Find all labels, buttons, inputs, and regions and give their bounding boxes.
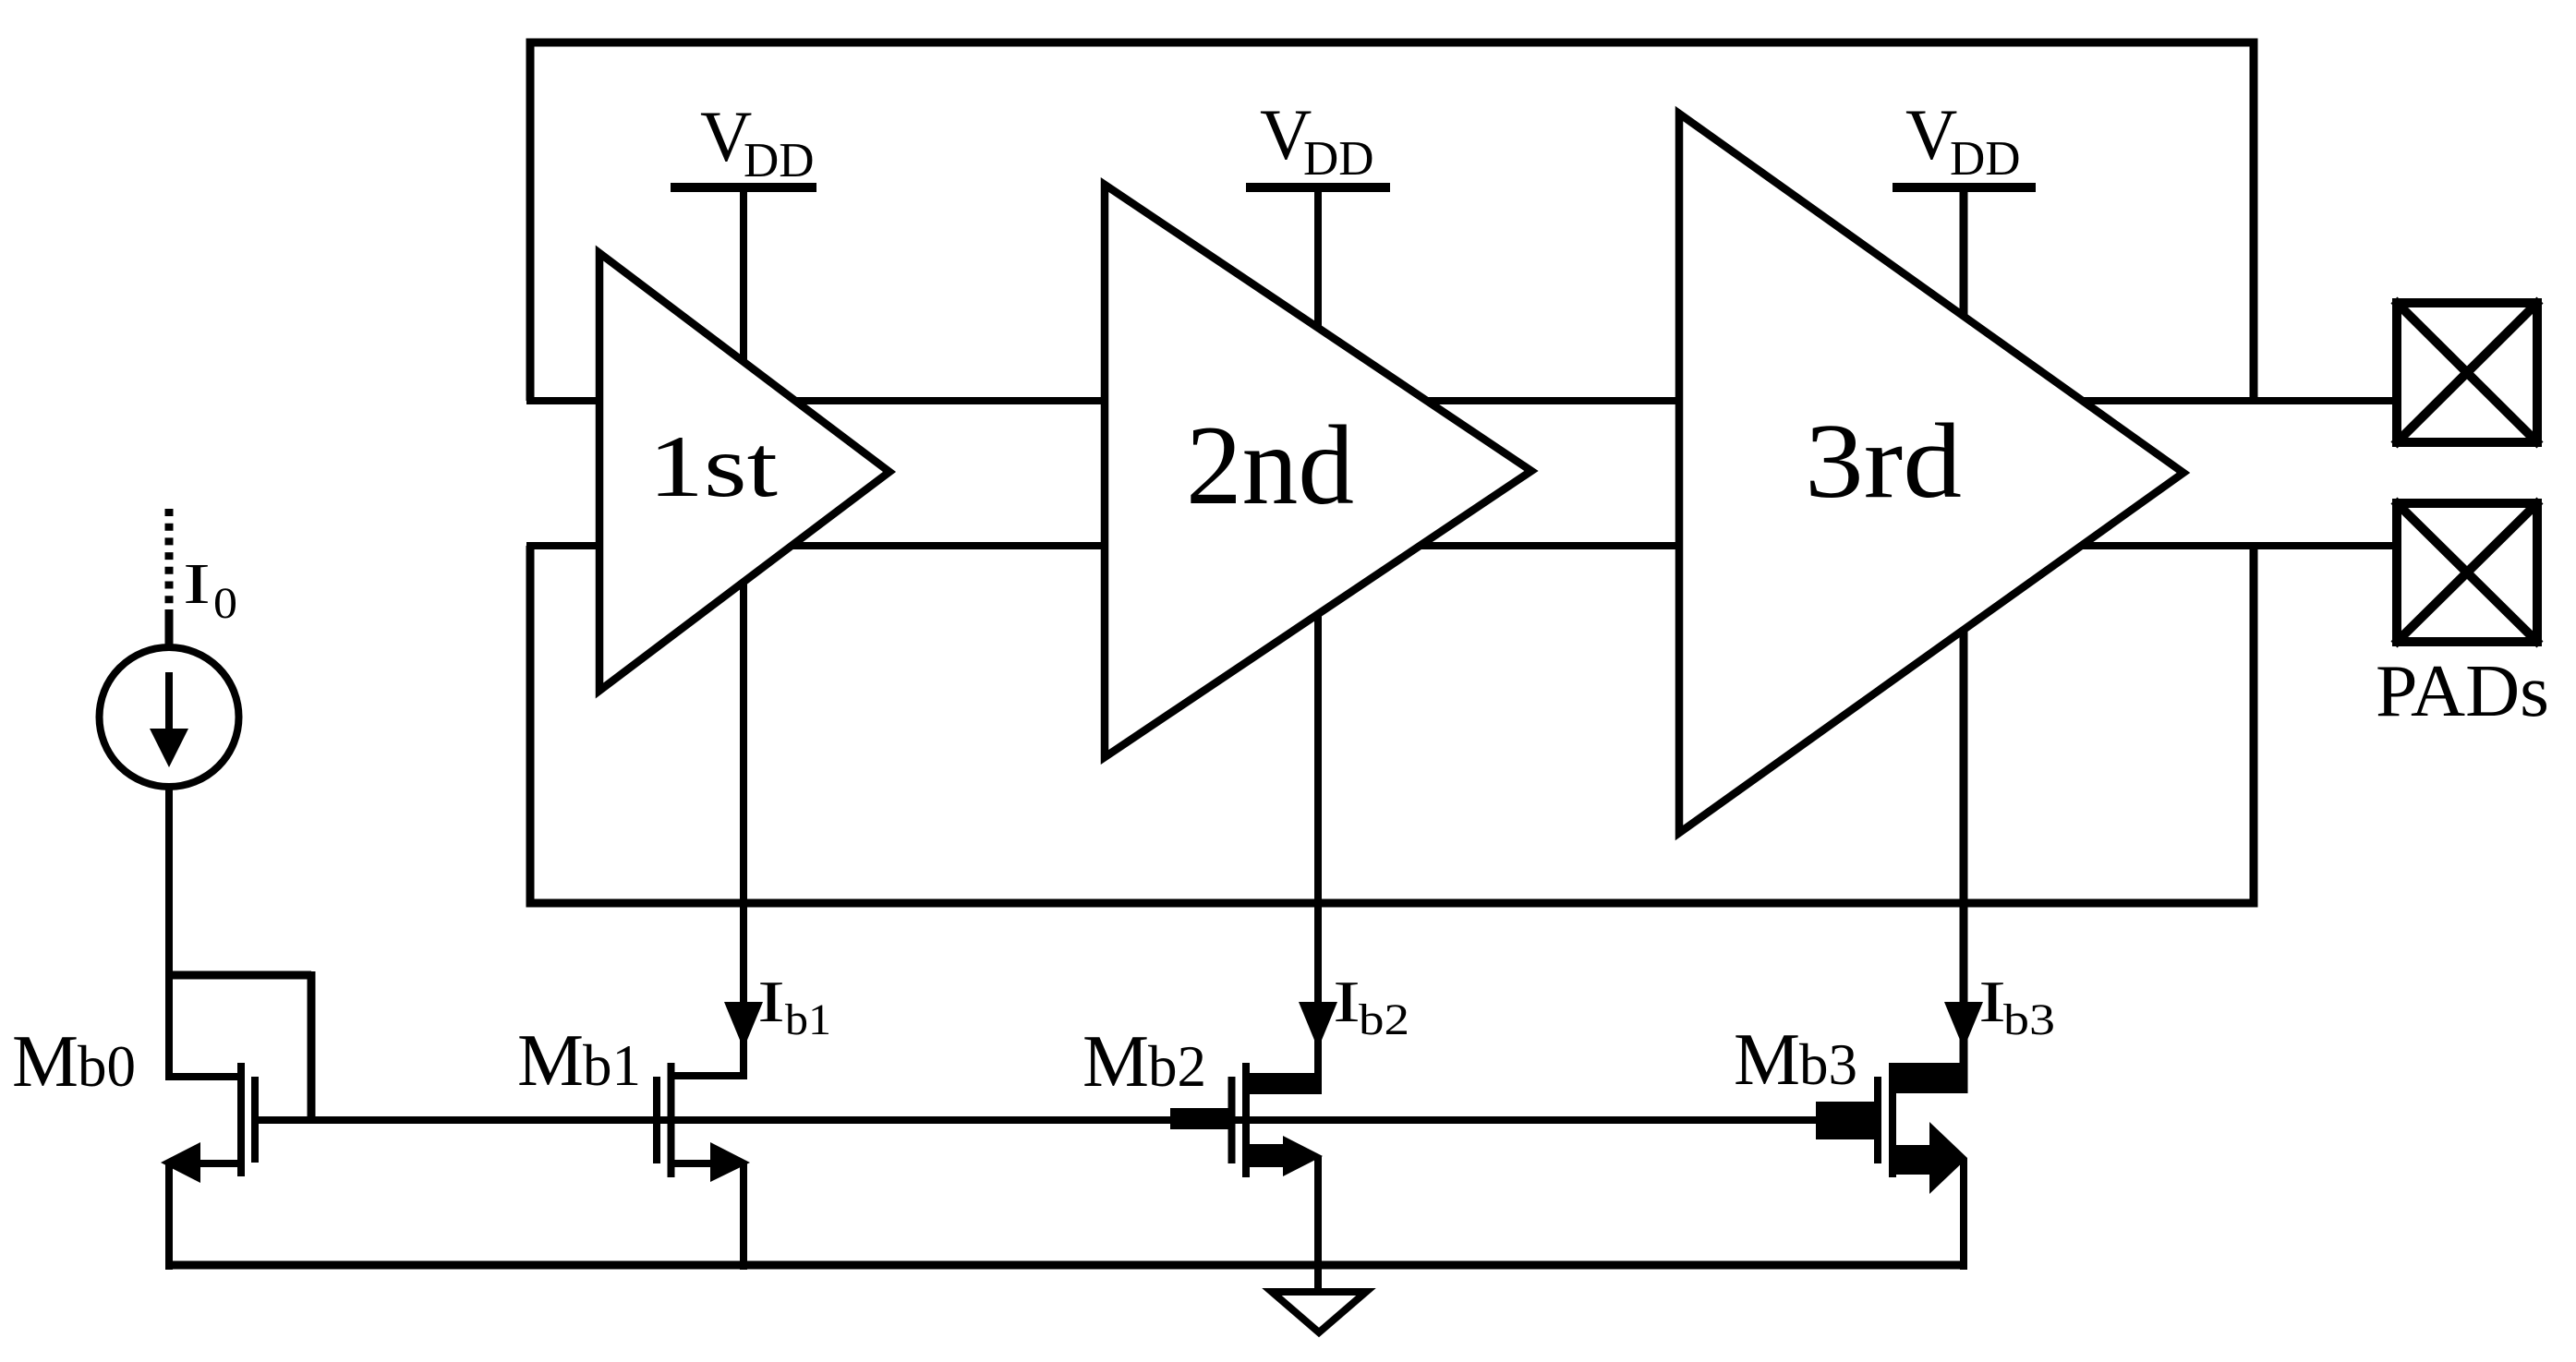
- svg-text:1st: 1st: [648, 417, 778, 515]
- svg-text:b1: b1: [785, 995, 831, 1044]
- svg-text:PADs: PADs: [2376, 651, 2549, 732]
- svg-text:M: M: [517, 1018, 584, 1102]
- svg-text:M: M: [1082, 1019, 1149, 1103]
- svg-text:0: 0: [213, 579, 237, 628]
- svg-text:3rd: 3rd: [1805, 403, 1962, 521]
- svg-text:b3: b3: [1799, 1032, 1857, 1097]
- svg-text:b2: b2: [1148, 1034, 1206, 1099]
- svg-text:I: I: [757, 970, 785, 1034]
- svg-text:b0: b0: [78, 1034, 136, 1099]
- svg-text:M: M: [1734, 1018, 1800, 1101]
- svg-text:b2: b2: [1359, 995, 1409, 1044]
- svg-text:DD: DD: [1950, 132, 2021, 186]
- svg-text:I: I: [1333, 970, 1361, 1034]
- svg-text:b3: b3: [2003, 995, 2055, 1044]
- svg-text:2nd: 2nd: [1186, 402, 1354, 528]
- svg-text:b1: b1: [583, 1033, 641, 1098]
- svg-text:I: I: [1978, 970, 2006, 1034]
- svg-text:M: M: [12, 1019, 79, 1103]
- svg-text:I: I: [183, 553, 211, 616]
- svg-text:DD: DD: [1303, 132, 1374, 186]
- svg-text:DD: DD: [744, 134, 815, 187]
